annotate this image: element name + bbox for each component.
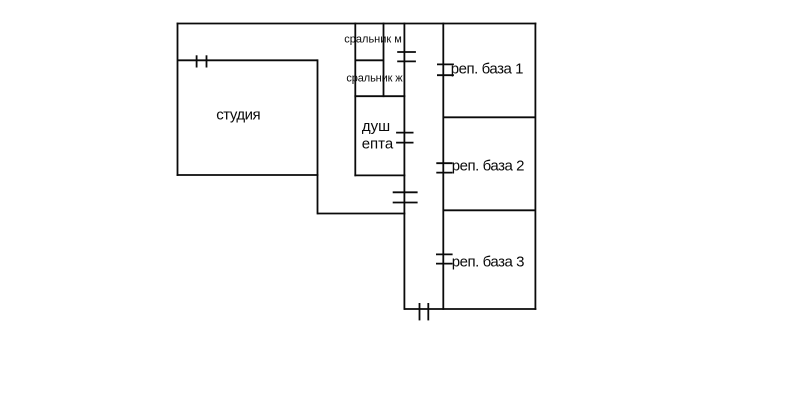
door rep base 1 tick 2 [437, 74, 454, 76]
wire studio right wall [317, 59, 319, 214]
wire toilets bottom wall [354, 95, 405, 97]
door rep base 2 tick 2 [436, 172, 452, 174]
door rep base 2 tick 1 [436, 162, 452, 164]
door toilets tick 2 [397, 60, 416, 62]
svg-text:студия: студия [216, 107, 260, 124]
wire toilet divider wall [355, 59, 383, 61]
svg-text:реп. база 1: реп. база 1 [451, 61, 523, 78]
wire shower bottom wall [354, 174, 405, 176]
wire left outer wall [177, 23, 179, 176]
wire right outer wall [534, 23, 536, 310]
wire rehearsal rooms left wall [442, 23, 444, 310]
door shower tick 1 [396, 132, 413, 134]
door studio tick 1 [196, 55, 198, 67]
wire studio bottom wall [177, 174, 319, 176]
svg-text:епта: епта [362, 135, 394, 152]
door lower corridor tick 1 [393, 191, 418, 193]
door toilets tick 1 [397, 51, 416, 53]
door rep base 1 tick 1 [437, 63, 454, 65]
door rep base 3 tick 1 [436, 253, 453, 255]
svg-text:сральник ж: сральник ж [346, 73, 403, 85]
svg-text:душ: душ [362, 118, 390, 135]
door lower corridor tick 2 [393, 202, 418, 204]
wire rep base 2 bottom wall [443, 209, 535, 211]
wire bottom outer wall [404, 308, 536, 310]
svg-text:сральник м: сральник м [344, 33, 402, 45]
wire top outer wall [177, 23, 537, 25]
wire corridor left wall [403, 23, 405, 310]
svg-text:реп. база 2: реп. база 2 [452, 158, 524, 175]
wire rep base 1 bottom wall [443, 116, 535, 118]
wire toilets right wall [383, 23, 385, 98]
wire toilets left wall [354, 23, 356, 177]
wire lower extension bottom wall [318, 213, 406, 215]
svg-text:реп. база 3: реп. база 3 [452, 253, 524, 270]
door rep base 3 tick 2 [436, 263, 453, 265]
door bottom exit tick 1 [419, 303, 421, 320]
door shower tick 2 [396, 142, 413, 144]
door bottom exit tick 2 [427, 303, 429, 320]
door studio tick 2 [206, 55, 208, 67]
wire studio top wall [178, 59, 318, 61]
